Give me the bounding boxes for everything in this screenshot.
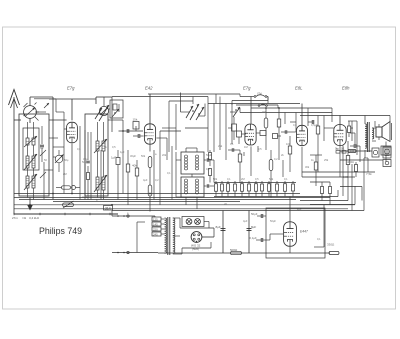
svg-text:0,5: 0,5 xyxy=(112,145,116,149)
svg-text:Philips 749: Philips 749 xyxy=(39,226,82,236)
bus supply return xyxy=(158,252,330,254)
svg-text:30k: 30k xyxy=(305,165,310,169)
tube V6 E447 AF driver xyxy=(284,222,297,246)
field rail upper xyxy=(340,149,372,164)
wire speaker drops xyxy=(340,146,362,211)
svg-text:20k: 20k xyxy=(162,153,167,157)
bus HT y205 xyxy=(14,204,355,206)
wire section links L xyxy=(44,120,67,170)
oscillator resistor R3 xyxy=(148,185,152,196)
svg-text:50k: 50k xyxy=(269,177,274,181)
wire V1 cathode down xyxy=(71,144,73,194)
grid resistor R1 15k xyxy=(133,118,140,130)
smoothing capacitor C11 xyxy=(247,211,257,254)
resistor R17 xyxy=(355,162,358,177)
label WG32 506 xyxy=(191,244,201,251)
top bus output y115 xyxy=(300,115,390,117)
bandswitch S1 contacts xyxy=(95,105,119,121)
top bus detector y103 xyxy=(208,103,300,105)
wire output mid rails xyxy=(302,155,375,182)
wire socket HT lead xyxy=(180,218,214,237)
IF transformer T1 can xyxy=(181,148,204,174)
label E447 xyxy=(300,230,308,234)
label 40uF xyxy=(82,195,88,199)
svg-text:70k: 70k xyxy=(262,110,267,114)
switch box S1b xyxy=(108,100,123,118)
mains transformer T4 core xyxy=(168,217,170,255)
svg-text:15k: 15k xyxy=(133,118,138,122)
IF transformer T2 can xyxy=(181,177,204,197)
wire osc verticals xyxy=(162,101,208,152)
wire right edge drops xyxy=(357,116,390,173)
wire V1 anode up xyxy=(49,99,96,120)
output transformer T3 secondary xyxy=(372,128,374,139)
mains transformer T4 primary xyxy=(165,218,167,253)
wire V4 anode riser xyxy=(301,104,303,126)
svg-text:0,5: 0,5 xyxy=(258,147,262,151)
RF coil shield box xyxy=(85,114,108,196)
svg-text:1M: 1M xyxy=(244,145,248,149)
svg-text:2M: 2M xyxy=(63,172,67,176)
wire det verticals top xyxy=(214,97,232,161)
wire T3 leads xyxy=(365,116,376,159)
wire V5 grid link xyxy=(324,127,334,129)
dial scale text xyxy=(12,216,40,220)
svg-text:1k: 1k xyxy=(311,158,314,162)
padder capacitor C2 xyxy=(40,126,44,162)
smoothing capacitor C10 xyxy=(216,211,226,254)
svg-text:E8h: E8h xyxy=(342,86,350,91)
wire return y196 xyxy=(290,190,338,197)
wire rectifier return xyxy=(182,242,211,254)
resistor R4 xyxy=(126,150,130,205)
IF trimmers xyxy=(204,158,214,188)
choke R15 330 xyxy=(327,243,339,255)
capacitor C6 xyxy=(228,148,240,152)
svg-text:25k: 25k xyxy=(324,158,329,162)
svg-text:125: 125 xyxy=(153,217,158,221)
hum-buck coil L9 xyxy=(381,142,391,163)
wire return y210 long xyxy=(112,158,364,211)
resistor R6 xyxy=(238,150,242,183)
svg-text:4µF: 4µF xyxy=(143,178,148,182)
svg-text:50k: 50k xyxy=(82,160,87,164)
wire V5 cathode xyxy=(339,146,341,178)
wire staircase y105 xyxy=(236,105,278,110)
mains lead live xyxy=(112,211,155,218)
wire V1-V2 coupling xyxy=(108,120,143,133)
label tube V3 E7g xyxy=(243,86,251,91)
wire drop x324 to rectifier xyxy=(314,205,324,248)
svg-text:0,3: 0,3 xyxy=(206,167,210,171)
svg-text:E7g: E7g xyxy=(243,86,251,91)
wire staircase y100 xyxy=(232,97,268,106)
switch S3 contacts xyxy=(258,104,267,106)
top bus y93 xyxy=(148,94,240,104)
ground GND1 xyxy=(27,198,33,211)
svg-text:0,1: 0,1 xyxy=(293,123,297,127)
output transformer T3 core xyxy=(367,122,369,152)
output transformer T3 primary xyxy=(365,124,367,148)
wire staircase y112 xyxy=(240,108,332,124)
svg-text:25k: 25k xyxy=(218,144,223,148)
wire R3 down xyxy=(149,196,151,212)
svg-text:330Ω: 330Ω xyxy=(327,243,335,247)
AF coupling network xyxy=(281,130,296,172)
wire output extra verticals xyxy=(336,146,368,172)
speaker terminal box 1 xyxy=(372,148,379,157)
feedback resistor R13 xyxy=(321,182,324,201)
tube V5 E8h output xyxy=(334,125,346,146)
wire x208 riser xyxy=(207,97,209,153)
wire gang1 top run xyxy=(30,97,56,112)
svg-text:50µF: 50µF xyxy=(270,219,276,223)
capacitor C12 50uF xyxy=(251,212,266,218)
wire bus x53 xyxy=(52,97,54,200)
label tube V4 E8L xyxy=(295,86,303,91)
svg-text:27m: 27m xyxy=(12,216,18,220)
resistor R18 xyxy=(87,166,90,200)
dial lamps box xyxy=(182,217,204,227)
wire R2-R3 xyxy=(149,168,151,186)
wire V6 anode xyxy=(289,197,291,222)
speaker terminal box 3 xyxy=(383,160,391,167)
volume potentiometer R9 xyxy=(63,201,74,208)
svg-text:0,1µF: 0,1µF xyxy=(250,236,257,240)
HF switch S2 xyxy=(240,92,268,104)
V5 under labels xyxy=(335,147,346,154)
wire left verticals xyxy=(44,126,123,200)
svg-text:E447: E447 xyxy=(300,230,308,234)
oscillator resistor R2 xyxy=(148,157,152,168)
wire antenna tap xyxy=(14,119,21,121)
resistor R8 xyxy=(269,150,273,186)
svg-text:1µF: 1µF xyxy=(120,150,125,154)
wire return y204 xyxy=(310,186,355,205)
svg-text:10k: 10k xyxy=(286,142,291,146)
svg-text:40µF: 40µF xyxy=(82,195,88,199)
label tube V5 E8h xyxy=(342,86,350,91)
coupling capacitor C4 xyxy=(133,134,144,138)
bleeder resistor R14 xyxy=(230,248,242,255)
svg-text:50k: 50k xyxy=(141,154,146,158)
wire V5 anode xyxy=(339,116,341,125)
capacitor C30 xyxy=(83,157,90,163)
enclosure box V6 xyxy=(266,208,325,258)
mixer-det cluster xyxy=(228,117,246,144)
svg-text:2M: 2M xyxy=(241,177,245,181)
svg-text:0,5: 0,5 xyxy=(255,177,259,181)
scattered value labels xyxy=(40,110,355,241)
dial lamp LP2 xyxy=(195,219,201,225)
bus ground y197 xyxy=(14,197,330,199)
trimmer arrows input xyxy=(40,150,46,178)
svg-text:0,1: 0,1 xyxy=(167,171,171,175)
input coil shield box xyxy=(19,114,49,196)
svg-text:40k: 40k xyxy=(132,164,137,168)
dial lamp LP1 xyxy=(186,219,192,225)
coupling capacitor C14 xyxy=(308,116,324,142)
det chain parts xyxy=(256,131,281,139)
wire input box internals xyxy=(28,122,34,200)
aerial coil L3 L4 xyxy=(24,154,37,170)
decoupling C7 xyxy=(277,108,281,160)
svg-text:(506): (506) xyxy=(192,247,199,251)
svg-text:0,2: 0,2 xyxy=(155,178,159,182)
svg-text:1µF: 1µF xyxy=(111,156,116,160)
wire det drops xyxy=(244,146,283,198)
voltage selector plate xyxy=(152,216,165,236)
bus tag 214 xyxy=(104,206,113,211)
capacitor C13 xyxy=(250,234,284,242)
svg-text:50: 50 xyxy=(44,158,47,162)
capacitor C16 xyxy=(209,169,212,183)
capacitor C5 1uF xyxy=(111,150,120,200)
field resistor R12 xyxy=(310,155,322,186)
svg-text:8µF: 8µF xyxy=(216,225,221,229)
svg-text:E8L: E8L xyxy=(295,86,303,91)
input coil inner box xyxy=(23,128,39,170)
tube V3 E7g detector xyxy=(245,124,256,145)
svg-text:245: 245 xyxy=(153,232,158,236)
wire mid verticals xyxy=(154,146,214,205)
field rail lower xyxy=(340,160,383,176)
RF coil L7 L8 xyxy=(94,139,107,153)
bus y201 xyxy=(53,201,240,203)
aerial coil L5 L6 xyxy=(24,174,37,190)
tone capacitor C8 xyxy=(350,133,360,162)
svg-text:=Ω: =Ω xyxy=(22,216,27,220)
svg-text:3,4 kHz: 3,4 kHz xyxy=(29,216,40,220)
label tube V2 E42 xyxy=(145,86,153,91)
wire top loop osc xyxy=(96,97,112,132)
svg-text:0,1: 0,1 xyxy=(317,237,321,241)
wire row bus xyxy=(214,183,296,197)
wire V3 cathode xyxy=(250,146,252,176)
tube V2 E42 mixer xyxy=(144,124,155,144)
svg-text:2k: 2k xyxy=(281,153,284,157)
diode coupling cluster xyxy=(230,97,240,118)
aerial coil L1 L2 xyxy=(24,136,37,147)
resistor R16 xyxy=(56,186,80,190)
antenna A1 xyxy=(9,90,20,215)
capacitor C15 xyxy=(209,150,212,166)
loudspeaker LS1 xyxy=(376,122,392,142)
bus heater y199 xyxy=(19,199,296,201)
resistor R5 40k xyxy=(132,160,139,200)
svg-text:0,1: 0,1 xyxy=(40,146,44,150)
wire RF box internals xyxy=(85,122,104,200)
mains lead neutral xyxy=(112,222,158,254)
RF coil L9 L10 xyxy=(94,175,107,192)
wire mixer output xyxy=(156,131,181,160)
variable capacitor C1 gang1 xyxy=(24,100,40,123)
feedback capacitor C9 xyxy=(329,182,332,205)
wire det top h108 xyxy=(251,107,332,122)
svg-text:0,1: 0,1 xyxy=(77,147,81,151)
svg-text:0,1: 0,1 xyxy=(227,177,231,181)
svg-text:7,5k: 7,5k xyxy=(366,172,372,176)
tube V1 E7g RF amplifier xyxy=(67,122,78,143)
detector component row xyxy=(215,181,295,197)
component row labels xyxy=(213,177,288,181)
bus y209 xyxy=(14,208,348,210)
mains transformer T4 secondary xyxy=(173,218,182,254)
svg-text:50µ: 50µ xyxy=(64,158,69,162)
V5 grid part xyxy=(348,121,351,137)
svg-text:4µF: 4µF xyxy=(243,219,248,223)
wire V4 top links xyxy=(290,108,308,132)
svg-text:214: 214 xyxy=(105,206,111,210)
tube V4 E8L AF amplifier xyxy=(297,125,308,145)
wire return y200 xyxy=(300,196,348,201)
svg-text:0,1: 0,1 xyxy=(284,177,288,181)
svg-text:a: a xyxy=(155,153,157,156)
wire V2 anode riser xyxy=(149,94,151,123)
svg-text:0,1: 0,1 xyxy=(230,142,234,146)
svg-text:5k: 5k xyxy=(104,145,107,149)
dial scale line xyxy=(14,213,118,215)
bandswitch S1 gang2 cap xyxy=(99,106,108,115)
svg-text:20: 20 xyxy=(224,202,227,206)
rectifier socket WG32 xyxy=(191,232,202,243)
speaker terminal box 2 xyxy=(383,147,391,158)
svg-text:400Ω: 400Ω xyxy=(347,160,354,164)
svg-text:500Ω: 500Ω xyxy=(230,248,238,252)
svg-text:(7k): (7k) xyxy=(257,92,262,96)
svg-text:8µF: 8µF xyxy=(251,225,256,229)
svg-text:E42: E42 xyxy=(145,86,153,91)
oscillator coupling cluster xyxy=(184,104,205,120)
wire output upper links xyxy=(332,121,357,141)
svg-text:50µF: 50µF xyxy=(251,212,258,216)
svg-text:0,2: 0,2 xyxy=(274,157,278,161)
wire IF can links xyxy=(172,146,197,209)
wire V3 anode riser xyxy=(250,97,252,124)
cathode resistor R11 xyxy=(346,141,350,196)
svg-text:30µF: 30µF xyxy=(130,154,136,158)
wire V6 cathode xyxy=(289,246,291,253)
V1 grid cap wire xyxy=(56,112,72,147)
top bus mixer y96 xyxy=(112,96,208,98)
anode load R7 xyxy=(264,108,268,150)
title Philips 749 xyxy=(39,226,82,236)
label tube V1 E7g xyxy=(67,86,75,91)
bus AVC y193 xyxy=(14,193,300,195)
grid stopper R10 xyxy=(316,116,320,173)
svg-text:E7g: E7g xyxy=(67,86,75,91)
wire V4 down xyxy=(301,147,303,177)
wire osc cluster risers xyxy=(160,90,205,116)
wave-change switch arm xyxy=(53,150,69,172)
svg-text:145: 145 xyxy=(153,222,158,226)
svg-text:220: 220 xyxy=(153,227,158,231)
wire V2 cathode xyxy=(149,145,151,152)
